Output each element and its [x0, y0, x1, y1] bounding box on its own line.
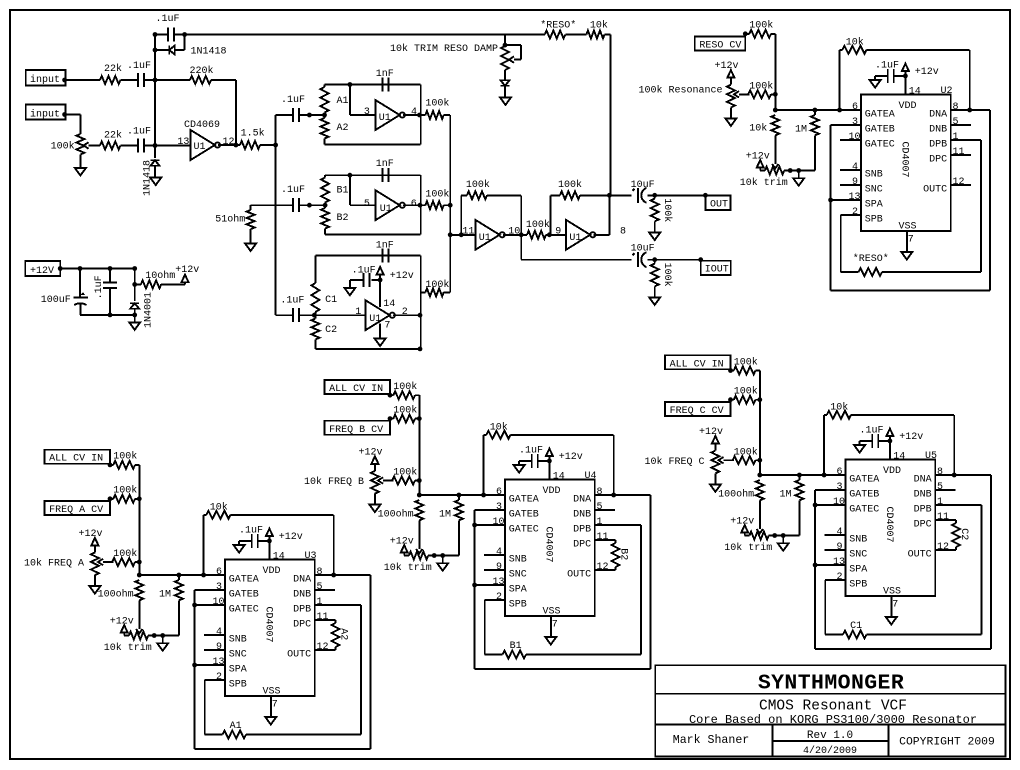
title block frame — [655, 665, 1005, 756]
resistor 100ohm freqA — [98, 580, 144, 629]
svg-text:14: 14 — [273, 552, 285, 563]
pin 5 DNB U5 — [914, 482, 943, 501]
pin 11 DPC U2 — [929, 147, 964, 166]
svg-text:14: 14 — [909, 87, 921, 98]
pin 2 SPB U5 — [837, 572, 868, 591]
wire pin1 stage C — [314, 307, 365, 318]
svg-text:100k: 100k — [425, 279, 449, 291]
resistor 100k freqC pot — [733, 446, 760, 464]
title Rev 1.0 — [807, 730, 853, 742]
ground pin 7 U3 — [265, 717, 276, 725]
resistor 22k input2 — [100, 130, 122, 150]
svg-text:4: 4 — [216, 627, 222, 638]
node label box input 2 — [26, 104, 66, 120]
node label box ALL CV IN — [665, 355, 731, 370]
pin 6 GATEA U3 — [216, 567, 259, 586]
pin 8 DNA U5 — [914, 467, 943, 486]
IC U4 VDD label — [543, 486, 561, 497]
svg-text:5: 5 — [317, 582, 323, 593]
svg-text:10k FREQ B: 10k FREQ B — [304, 476, 364, 488]
svg-text:SNB: SNB — [229, 634, 247, 645]
svg-text:GATEA: GATEA — [229, 574, 259, 585]
pin 1 DPB U3 — [293, 597, 322, 616]
svg-text:.1uF: .1uF — [281, 95, 305, 106]
wire C to node — [144, 79, 155, 81]
wire pin 14 U5 — [888, 439, 906, 463]
IC U2 VSS label — [899, 222, 917, 233]
svg-text:1M: 1M — [439, 509, 451, 520]
pin 13 SPA U4 — [493, 577, 527, 596]
svg-text:100k: 100k — [749, 81, 773, 93]
pin 4 SNB U4 — [496, 547, 527, 566]
node label box IOUT — [701, 261, 731, 276]
resistor 100k FREQ C CV — [728, 386, 760, 404]
wire freqA gate row — [139, 573, 225, 578]
svg-text:100k: 100k — [466, 179, 490, 191]
svg-text:4: 4 — [852, 162, 858, 173]
svg-text:+12v: +12v — [730, 516, 754, 527]
svg-text:8: 8 — [953, 102, 959, 113]
wire pin 2 spb link U4 — [485, 600, 505, 655]
svg-text:SPB: SPB — [849, 579, 867, 590]
resistor 100k stage B out — [421, 188, 451, 209]
svg-text:8: 8 — [620, 226, 626, 237]
wire pin 9 stub U3 — [204, 649, 225, 651]
svg-text:100k: 100k — [526, 219, 550, 231]
svg-text:9: 9 — [837, 542, 843, 553]
wire pin3 — [350, 85, 376, 119]
wire power bottom rail — [80, 313, 137, 318]
IC U4 CD4007 box — [505, 480, 595, 617]
pin 5 DNB U4 — [573, 502, 602, 521]
node pin13 junction — [153, 143, 158, 148]
resistor 10k reso — [749, 115, 779, 164]
svg-text:100k: 100k — [734, 386, 758, 398]
svg-text:OUTC: OUTC — [287, 649, 311, 660]
wire input1 to 22k — [62, 78, 100, 83]
svg-text:6: 6 — [852, 102, 858, 113]
pin 11 DPC U4 — [573, 532, 608, 551]
node B1-B2 — [323, 203, 328, 208]
inverter U1 1-2 stage C — [365, 299, 407, 331]
svg-text:C2: C2 — [958, 528, 969, 540]
pin 9 SNC U5 — [837, 542, 868, 561]
svg-text:C1: C1 — [850, 621, 862, 632]
svg-text:SPB: SPB — [229, 679, 247, 690]
svg-text:22k: 22k — [104, 130, 122, 142]
svg-text:SNB: SNB — [865, 169, 883, 180]
resistor 220k feedback — [155, 65, 236, 145]
svg-text:GATEC: GATEC — [849, 504, 879, 515]
IC U2 CD4007 vertical label — [899, 142, 910, 178]
svg-text:12: 12 — [223, 137, 235, 148]
svg-text:.1uF: .1uF — [352, 266, 376, 277]
svg-text:U5: U5 — [925, 451, 937, 462]
power +12v arrow freqC trim — [730, 516, 754, 535]
ground reso trim — [793, 171, 804, 186]
wire top feedback long — [185, 34, 505, 36]
pin 2 SPB U3 — [216, 672, 247, 691]
svg-text:8: 8 — [317, 567, 323, 578]
svg-text:A1: A1 — [337, 96, 349, 107]
pin 3 GATEB U4 — [496, 502, 539, 521]
wire pin4 out — [403, 113, 422, 118]
svg-text:10k: 10k — [846, 37, 864, 49]
svg-text:GATEA: GATEA — [849, 474, 879, 485]
svg-text:input: input — [30, 74, 60, 86]
pin 12 OUTC U3 — [287, 642, 328, 661]
svg-text:8: 8 — [937, 467, 943, 478]
resistor 100k IOUT gnd — [651, 260, 673, 298]
node input1/feedback junction — [153, 78, 158, 83]
wire to OUT box — [648, 193, 708, 198]
svg-text:SNB: SNB — [509, 554, 527, 565]
wiper arrow freqC trim — [757, 529, 763, 533]
svg-text:U3: U3 — [305, 551, 317, 562]
wire capC to node — [299, 313, 316, 318]
svg-text:U1: U1 — [379, 113, 391, 124]
svg-text:13: 13 — [213, 657, 225, 668]
IC U4 VSS label — [543, 607, 561, 618]
svg-text:12: 12 — [937, 542, 949, 553]
svg-text:1N1418: 1N1418 — [191, 47, 227, 58]
svg-text:7: 7 — [892, 600, 898, 611]
ground under 1N1418 — [150, 178, 161, 186]
svg-text:U4: U4 — [585, 471, 597, 482]
svg-text:B2: B2 — [337, 213, 349, 224]
svg-text:3: 3 — [852, 117, 858, 128]
svg-text:4: 4 — [496, 547, 502, 558]
svg-text:Rev 1.0: Rev 1.0 — [807, 730, 853, 742]
wire pin 11 stub U4 — [595, 539, 616, 541]
capacitor .1uF feedback top — [153, 14, 187, 42]
wire pin 4 stub U5 — [825, 534, 846, 536]
svg-text:GATEB: GATEB — [865, 124, 895, 135]
pin 4 SNB U2 — [852, 162, 883, 181]
node label box +12V — [25, 261, 60, 277]
title Mark Shaner — [673, 734, 750, 747]
wire stageB right/bottom — [325, 175, 421, 234]
ground pin 7 U4 — [545, 637, 556, 645]
svg-text:11: 11 — [597, 532, 609, 543]
svg-text:.1uF: .1uF — [519, 446, 543, 457]
svg-text:100k: 100k — [113, 485, 137, 497]
svg-text:+12v: +12v — [279, 532, 303, 543]
svg-text:1M: 1M — [159, 589, 171, 600]
power +12v arrow reso pot — [715, 61, 739, 78]
IC U5 CD4007 vertical label — [883, 507, 894, 543]
wire pin 10 stub U2 — [840, 139, 861, 141]
capacitor .1uF stage C — [280, 295, 304, 322]
inverter U1 5-6 stage B — [375, 190, 416, 220]
pin 5 DNB U2 — [929, 117, 958, 136]
IC U2 CD4007 box — [861, 95, 951, 232]
wire damp feedback down — [610, 35, 612, 196]
resistor B1 loop U4 — [485, 525, 641, 659]
wire pin 11 stub U3 — [315, 619, 336, 621]
wire main bus vertical — [275, 115, 277, 315]
wire stageB top — [325, 173, 421, 178]
IC U5 VSS label — [883, 587, 901, 598]
resistor *RESO* damp — [505, 20, 586, 39]
wire pin 2 spb link U3 — [205, 680, 225, 735]
wire pin 12 stub U3 — [315, 649, 336, 651]
svg-text:DNA: DNA — [573, 494, 591, 505]
node fb1 left — [459, 232, 464, 237]
wire pin8 out — [593, 193, 611, 235]
power +12v arrow freqB pot — [359, 447, 383, 464]
svg-text:10k trim: 10k trim — [740, 177, 788, 189]
inverter U1 9-8 — [566, 220, 626, 250]
ground at U5 cap — [854, 441, 865, 453]
svg-text:10: 10 — [493, 517, 505, 528]
svg-text:5: 5 — [953, 117, 959, 128]
wire pin 14 U3 — [267, 539, 285, 563]
svg-text:100k: 100k — [393, 467, 417, 479]
svg-text:.1uF: .1uF — [860, 426, 884, 437]
svg-text:OUTC: OUTC — [923, 184, 947, 195]
svg-text:100k: 100k — [113, 451, 137, 463]
wire pin 10 stub U5 — [813, 503, 846, 508]
IC U3 VSS label — [263, 687, 281, 698]
label 100k Resonance — [638, 85, 722, 97]
resistor 10k damp — [586, 20, 610, 39]
wire pin 13 spa junction U5 — [813, 563, 846, 568]
wire stageC top — [315, 255, 420, 257]
capacitor .1uF input1 — [127, 61, 151, 87]
svg-text:+12v: +12v — [699, 427, 723, 438]
svg-text:DPB: DPB — [914, 504, 932, 515]
capacitor .1uF power — [94, 269, 117, 315]
resistor 1M reso — [795, 110, 819, 171]
wire pin 10 stub U4 — [472, 523, 505, 528]
capacitor .1uF U1 power — [350, 266, 380, 287]
svg-text:SNB: SNB — [849, 534, 867, 545]
svg-text:10k: 10k — [490, 422, 508, 434]
resistor 100ohm freqC — [718, 480, 764, 529]
wire vertical node bus x155 — [153, 35, 158, 146]
wire pin 3 gateb link U4 — [475, 510, 505, 585]
svg-text:FREQ A CV: FREQ A CV — [49, 505, 103, 516]
resistor 100ohm freqB — [378, 500, 424, 549]
svg-text:ALL CV IN: ALL CV IN — [670, 359, 724, 370]
svg-text:.1uF: .1uF — [94, 275, 105, 299]
svg-text:10k trim: 10k trim — [104, 642, 152, 654]
wire reso cv vertical — [773, 34, 778, 113]
pin 11 DPC U3 — [293, 612, 328, 631]
wire reso row to pin6 — [0, 0, 1, 1]
wire pin 7 U2 — [907, 231, 914, 252]
resistor 10k feedback U5 — [822, 402, 957, 478]
power +12v arrow freqA trim — [110, 616, 134, 635]
svg-text:DPC: DPC — [573, 539, 591, 550]
node 1.5k junction — [273, 143, 278, 148]
wire pin2 out — [393, 313, 423, 318]
svg-text:2: 2 — [216, 672, 222, 683]
resistor 10k feedback U2 — [837, 37, 972, 113]
IC U2 VDD label — [899, 101, 917, 112]
svg-text:2: 2 — [837, 572, 843, 583]
pin 13 SPA U5 — [833, 557, 867, 576]
svg-text:7: 7 — [272, 700, 278, 711]
svg-text:B1: B1 — [510, 641, 522, 652]
ground under OUT res — [649, 233, 660, 241]
wire pin 3 gateb link U2 — [831, 125, 861, 200]
svg-text:DPC: DPC — [293, 619, 311, 630]
wire pin 4 stub U3 — [204, 634, 225, 636]
resistor 100k RESO CV — [743, 20, 775, 38]
svg-text:14: 14 — [553, 472, 565, 483]
svg-text:10uF: 10uF — [631, 180, 655, 191]
resistor 10k feedback U4 — [481, 422, 616, 498]
IC U5 VDD label — [883, 466, 901, 477]
svg-text:11: 11 — [937, 512, 949, 523]
potentiometer 100k Resonance — [727, 78, 749, 108]
svg-text:VDD: VDD — [543, 486, 561, 497]
svg-text:DPB: DPB — [293, 604, 311, 615]
node label box ALL CV IN — [325, 380, 391, 395]
svg-text:100k: 100k — [749, 20, 773, 32]
ground under reso pot — [725, 108, 736, 126]
pin 10 GATEC U4 — [493, 517, 539, 536]
IC U5 refdes — [925, 451, 937, 462]
power +12v arrow reso trim — [746, 151, 770, 170]
wiper arrow reso trim — [772, 164, 778, 168]
svg-text:10: 10 — [213, 597, 225, 608]
potentiometer 10k trim reso — [740, 167, 801, 189]
wire pin 9 stub U4 — [484, 569, 505, 571]
svg-text:U1: U1 — [569, 233, 581, 244]
svg-text:100k: 100k — [51, 141, 75, 153]
capacitor 10uF IOUT — [631, 244, 655, 268]
svg-text:DPB: DPB — [929, 139, 947, 150]
pin 11 DPC U5 — [914, 512, 949, 531]
wire outer loop U4 SPA-DNA — [475, 495, 651, 669]
wire stage outputs bus — [448, 115, 453, 292]
svg-text:100k: 100k — [558, 179, 582, 191]
svg-text:1nF: 1nF — [376, 69, 394, 80]
resistor C2 — [311, 315, 337, 349]
ground pin 7 U2 — [901, 252, 912, 260]
svg-text:VSS: VSS — [899, 222, 917, 233]
svg-text:6: 6 — [837, 467, 843, 478]
svg-text:7: 7 — [552, 620, 558, 631]
svg-text:13: 13 — [849, 192, 861, 203]
resistor 1.5k — [236, 128, 276, 150]
svg-text:10k: 10k — [590, 20, 608, 32]
wire pin 13 spa junction U4 — [472, 583, 505, 588]
IC U2 refdes — [941, 86, 953, 97]
resistor 22k input1 — [100, 63, 122, 84]
svg-text:100k Resonance: 100k Resonance — [638, 85, 722, 97]
potentiometer 10k FREQ A — [91, 545, 113, 575]
power +12v arrow U2 — [902, 64, 939, 78]
diode 1N1418 to ground — [143, 146, 160, 197]
wire pin14 U1 — [378, 278, 383, 308]
svg-text:14: 14 — [893, 452, 905, 463]
svg-text:.1uF: .1uF — [156, 14, 180, 25]
wire fb2 to 10uF — [609, 194, 631, 196]
pin 6 GATEA U5 — [837, 467, 880, 486]
wire pin 5 stub U2 — [951, 124, 971, 126]
svg-text:220k: 220k — [190, 65, 214, 77]
power +12v arrow freqA pot — [79, 529, 103, 546]
power +12v arrow U3 — [266, 529, 303, 543]
svg-text:11: 11 — [317, 612, 329, 623]
svg-text:6: 6 — [496, 487, 502, 498]
pin 12 OUTC U2 — [923, 177, 964, 196]
pin 8 DNA U2 — [929, 102, 958, 121]
inverter U1 11-10 — [475, 220, 520, 250]
resistor 100k ALL CV IN — [728, 356, 760, 374]
svg-text:13: 13 — [177, 137, 189, 148]
svg-text:GATEB: GATEB — [509, 509, 539, 520]
svg-text:1nF: 1nF — [376, 159, 394, 170]
svg-text:VDD: VDD — [883, 466, 901, 477]
svg-text:SNC: SNC — [849, 549, 867, 560]
inverter U1 13-12 — [155, 130, 235, 160]
label 10k FREQ B — [304, 476, 364, 488]
wire outer loop U5 SPA-DNA — [815, 475, 991, 649]
wire busB to capB — [276, 204, 293, 206]
capacitor 1nF stage B — [376, 159, 394, 182]
diode 1N1418 feedback — [155, 35, 227, 58]
svg-text:1.5k: 1.5k — [241, 128, 265, 140]
wire pin10 out — [503, 232, 527, 237]
svg-text:GATEA: GATEA — [865, 109, 895, 120]
wire pin 6 stub U4 — [484, 494, 505, 496]
svg-text:8: 8 — [597, 487, 603, 498]
svg-text:+12v: +12v — [715, 61, 739, 72]
svg-text:GATEB: GATEB — [229, 589, 259, 600]
capacitor .1uF stage A — [281, 95, 305, 122]
svg-text:VDD: VDD — [899, 101, 917, 112]
pin 13 SPA U2 — [849, 192, 883, 211]
wire pin 11 stub U5 — [935, 519, 956, 521]
ground under input pot — [75, 155, 86, 176]
resistor *RESO* loop U2 — [841, 140, 981, 276]
svg-text:100k: 100k — [734, 356, 758, 368]
pin 3 GATEB U3 — [216, 582, 259, 601]
ground at U3 cap — [234, 541, 245, 553]
wire pin 4 stub U2 — [840, 169, 861, 171]
resistor 100k freqA pot — [112, 548, 139, 566]
svg-text:A2: A2 — [337, 123, 349, 134]
resistor B2 U4 — [611, 540, 628, 570]
resistor 10k feedback U3 — [201, 502, 336, 578]
pin 3 GATEB U5 — [837, 482, 880, 501]
svg-text:9: 9 — [216, 642, 222, 653]
wire pin 6 stub U5 — [825, 474, 846, 476]
wiper arrow freqB trim — [416, 549, 422, 553]
svg-text:7: 7 — [384, 320, 390, 331]
svg-text:ALL CV IN: ALL CV IN — [329, 384, 383, 395]
pin 10 GATEC U5 — [833, 497, 879, 516]
svg-text:*RESO*: *RESO* — [853, 253, 889, 265]
svg-text:.1uF: .1uF — [280, 295, 304, 306]
wire pin 14 U4 — [547, 459, 565, 483]
wire pin 12 stub U2 — [951, 184, 971, 186]
svg-text:+12v: +12v — [390, 536, 414, 547]
resistor 100k stage A out — [421, 98, 451, 119]
wire outer loop U2 SPA-DNA — [831, 110, 991, 290]
svg-text:9: 9 — [852, 177, 858, 188]
label 10k TRIM RESO DAMP — [390, 43, 498, 55]
svg-text:SYNTHMONGER: SYNTHMONGER — [758, 672, 904, 696]
IC U3 CD4007 box — [225, 560, 315, 697]
capacitor 100uF electrolytic — [41, 269, 88, 315]
svg-text:100k: 100k — [393, 381, 417, 393]
